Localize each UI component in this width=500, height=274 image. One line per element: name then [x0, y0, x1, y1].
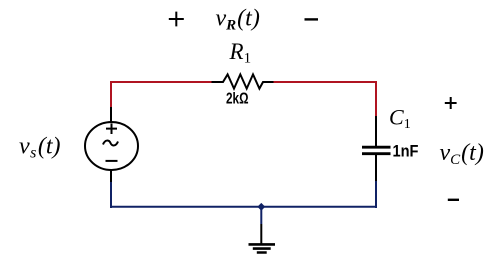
- svg-text:1nF: 1nF: [393, 143, 419, 161]
- wire left vertical black lead to source: [110, 107, 112, 123]
- source sine symbol: [103, 141, 118, 146]
- wire top-left red horizontal: [111, 81, 212, 83]
- voltage source VS: [85, 122, 138, 170]
- svg-text:vR(t): vR(t): [216, 6, 260, 34]
- wire bottom navy horizontal: [110, 206, 377, 208]
- wire top-right red horizontal: [273, 81, 376, 83]
- node junction: [257, 203, 265, 211]
- wire ground stem black: [260, 224, 262, 244]
- wire right vertical red: [375, 81, 377, 116]
- svg-text:vC(t): vC(t): [440, 140, 484, 168]
- label plus vC: [445, 97, 457, 109]
- svg-text:vs(t): vs(t): [19, 134, 61, 162]
- wire below capacitor black: [375, 154, 377, 181]
- wire right vertical navy: [375, 181, 377, 208]
- label minus vC: [448, 199, 459, 201]
- svg-text:C1: C1: [389, 105, 411, 133]
- label minus vR: [305, 18, 319, 20]
- source plus sign: [106, 123, 117, 134]
- svg-text:R1: R1: [229, 39, 252, 67]
- resistor R1: [212, 74, 274, 88]
- wire left vertical navy: [110, 182, 112, 208]
- capacitor C1: [362, 147, 391, 154]
- wire left vertical red: [110, 81, 112, 107]
- svg-text:2kΩ: 2kΩ: [226, 91, 249, 108]
- wire below source black: [110, 170, 112, 182]
- wire right vertical black lead to capacitor: [375, 116, 377, 146]
- ground: [249, 244, 276, 252]
- source minus sign: [106, 160, 118, 162]
- label plus vR: [169, 12, 184, 27]
- wire ground stem navy: [260, 207, 262, 224]
